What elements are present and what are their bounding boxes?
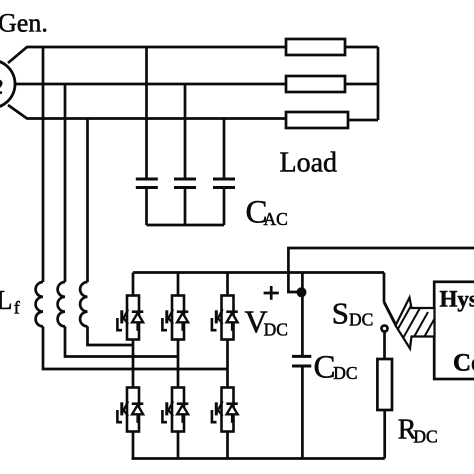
svg-text:S: S: [332, 296, 349, 331]
wire cap1 tap: [145, 47, 148, 179]
wire phase B down: [64, 84, 67, 282]
wire col2 top: [177, 273, 180, 296]
arrow hatch: [394, 304, 436, 348]
svg-text:Load: Load: [280, 148, 338, 179]
transistor Q4: [117, 388, 143, 432]
capacitor Cac1: [136, 179, 158, 188]
wire phase A to col3: [43, 326, 228, 369]
wire DC rail upper: [301, 273, 304, 357]
label plus: [264, 286, 279, 300]
control box: [434, 282, 474, 379]
capacitor Cac3: [213, 179, 235, 188]
wire load2 right: [345, 83, 378, 86]
svg-text:Hys.: Hys.: [440, 287, 474, 312]
svg-text:Gen.: Gen.: [0, 9, 48, 38]
wire col3 mid: [226, 340, 229, 388]
wire cap1 lower: [145, 188, 148, 226]
node DC+ dot: [297, 287, 307, 297]
wire col3 top: [226, 273, 229, 296]
generator sine mark: [0, 80, 2, 93]
inductor Lf2: [58, 282, 65, 326]
wire phase B to col2: [65, 326, 178, 356]
wire cap2 lower: [184, 188, 187, 226]
wire col1 mid: [132, 340, 135, 388]
resistor load 2: [286, 76, 345, 92]
wire load neutral vertical: [377, 47, 380, 120]
wire Rdc bottom: [383, 410, 386, 459]
wire bottom bus: [132, 457, 385, 460]
switch Sdc wire down: [383, 273, 386, 303]
transistor Q3: [212, 296, 238, 340]
wire bridge top bus: [133, 271, 384, 274]
wire load3 right: [348, 119, 378, 122]
transistor Q1: [117, 296, 143, 340]
resistor Rdc: [377, 359, 392, 410]
svg-text:DC: DC: [413, 427, 437, 447]
wire phase C down: [86, 119, 89, 283]
resistor load 1: [286, 39, 345, 55]
switch Sdc blade: [384, 302, 396, 326]
svg-text:AC: AC: [264, 209, 288, 229]
transistor Q5: [162, 388, 188, 432]
svg-text:DC: DC: [333, 363, 357, 383]
svg-text:f: f: [14, 298, 20, 318]
svg-text:DC: DC: [349, 309, 373, 329]
wire col2 bottom: [177, 432, 180, 459]
transistor Q6: [212, 388, 238, 432]
transistor Q2: [162, 296, 188, 340]
wire phase C bottom: [8, 105, 286, 119]
svg-text:L: L: [0, 285, 13, 315]
wire col1 top: [132, 273, 135, 296]
wire DC rail lower: [301, 366, 304, 459]
wire load1 right: [345, 46, 378, 49]
inductor Lf3: [80, 282, 87, 326]
resistor load 3: [286, 112, 348, 128]
svg-text:Co: Co: [453, 350, 474, 377]
svg-text:DC: DC: [264, 319, 288, 339]
wire phase A top: [8, 47, 286, 63]
wire col1 bottom: [132, 432, 135, 459]
wire cap3 tap: [223, 119, 226, 180]
wire col2 mid: [177, 340, 180, 388]
capacitor Cdc: [292, 356, 311, 366]
switch Sdc contact: [382, 326, 388, 332]
wire cap bottom bus: [147, 224, 225, 227]
wire sense line: [288, 248, 474, 292]
generator G circle: [0, 60, 15, 108]
wire switch to Rdc: [383, 332, 386, 360]
control arrow: [396, 298, 435, 349]
wire col3 bottom: [226, 432, 229, 459]
inductor Lf1: [36, 282, 43, 326]
wire cap3 lower: [223, 188, 226, 226]
wire cap2 tap: [184, 84, 187, 179]
wire phase B middle: [15, 83, 286, 86]
wire phase C to col1: [88, 326, 134, 345]
wire phase A down: [42, 47, 45, 282]
capacitor Cac2: [174, 179, 196, 188]
